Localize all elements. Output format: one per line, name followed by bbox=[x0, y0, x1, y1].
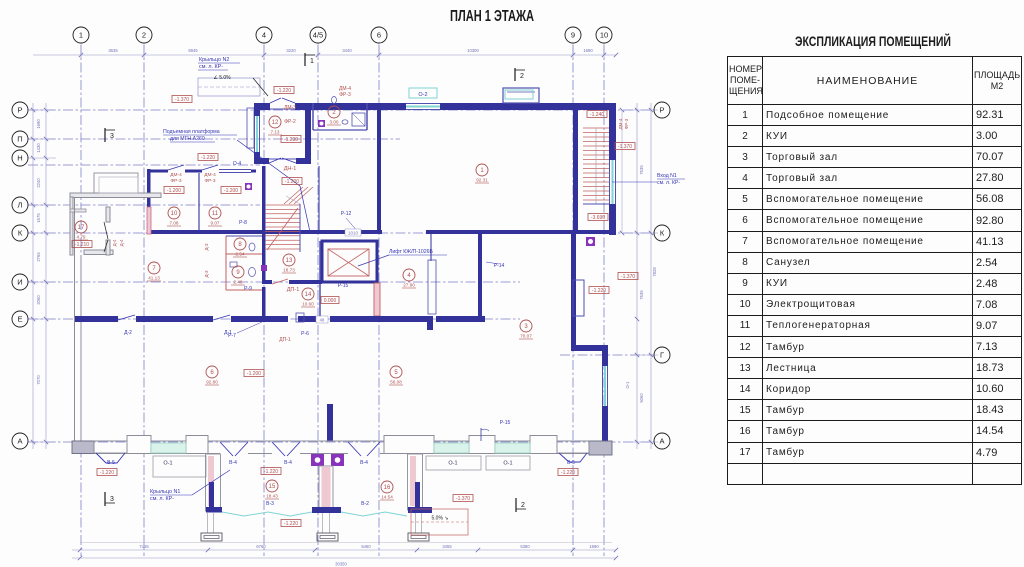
room 6 label bbox=[206, 366, 218, 378]
svg-text:К: К bbox=[18, 229, 23, 238]
svg-text:1675: 1675 bbox=[36, 213, 41, 223]
tambour 12 west wall bbox=[254, 103, 260, 116]
bottom total dimension 30350 bbox=[72, 557, 616, 559]
stub below E wall bbox=[427, 316, 433, 330]
svg-text:В-2: В-2 bbox=[361, 501, 369, 507]
chimney block on north wall bbox=[503, 88, 539, 103]
svg-text:Д-3: Д-3 bbox=[204, 270, 209, 278]
svg-text:-1.220: -1.220 bbox=[592, 288, 606, 294]
porch tambour wall 1 bbox=[206, 454, 221, 511]
tambour 12 west window bbox=[254, 116, 256, 152]
niche on axis9 wall bbox=[573, 280, 584, 316]
niche outline above west wing bbox=[94, 173, 138, 193]
horizontal axis line N bbox=[28, 164, 260, 166]
elevation label -3.690 bbox=[588, 214, 608, 221]
axis bubble И bbox=[12, 274, 28, 290]
svg-text:Д-3: Д-3 bbox=[204, 243, 209, 251]
svg-text:3440: 3440 bbox=[342, 48, 352, 53]
svg-text:2: 2 bbox=[332, 110, 336, 116]
purple marker 1 bbox=[245, 183, 252, 190]
svg-text:2: 2 bbox=[520, 73, 524, 80]
svg-text:56.08: 56.08 bbox=[390, 380, 402, 385]
lift car cross bbox=[328, 249, 369, 276]
bay window B-5 right bbox=[557, 441, 589, 453]
axis bubble П bbox=[12, 131, 28, 147]
door DP-1 leaf bbox=[272, 279, 288, 284]
elevation label -1.220 bbox=[198, 154, 218, 161]
elevation label -1.220 bbox=[261, 468, 281, 475]
vent shaft wall hatched bbox=[374, 283, 380, 316]
svg-text:4/5: 4/5 bbox=[313, 31, 323, 40]
door D-2 leaf bbox=[118, 315, 135, 320]
wall on K axis bbox=[147, 230, 382, 234]
svg-text:12: 12 bbox=[272, 120, 279, 126]
wall on A axis: top face line bbox=[72, 440, 612, 442]
svg-text:ДМ-4: ДМ-4 bbox=[170, 172, 182, 178]
svg-text:О-1: О-1 bbox=[503, 461, 512, 467]
svg-text:-1.200: -1.200 bbox=[224, 188, 238, 194]
svg-text:-1.220: -1.220 bbox=[561, 470, 575, 476]
svg-text:Д-4: Д-4 bbox=[119, 239, 124, 246]
svg-text:18.73: 18.73 bbox=[283, 268, 295, 273]
svg-text:-3.690: -3.690 bbox=[591, 215, 605, 221]
svg-text:1690: 1690 bbox=[583, 48, 593, 53]
svg-text:-1.200: -1.200 bbox=[247, 371, 261, 377]
svg-text:-1.240: -1.240 bbox=[590, 112, 604, 118]
room 17 bottom wall bbox=[84, 250, 113, 255]
door DM-3 opening north bbox=[270, 108, 295, 110]
window O-4 in top wall bbox=[219, 169, 251, 171]
room explication table bbox=[727, 56, 1022, 485]
svg-text:2.48: 2.48 bbox=[234, 280, 243, 285]
svg-text:14: 14 bbox=[305, 292, 312, 298]
svg-text:9: 9 bbox=[236, 270, 240, 276]
svg-text:30350: 30350 bbox=[335, 562, 347, 567]
svg-text:-1.220: -1.220 bbox=[264, 469, 278, 475]
vertical axis line 1 bbox=[80, 45, 82, 556]
svg-text:см. л. КР-: см. л. КР- bbox=[657, 180, 680, 186]
svg-text:1690: 1690 bbox=[36, 119, 41, 129]
porch slab edge line bbox=[80, 542, 612, 544]
svg-text:А: А bbox=[17, 437, 22, 446]
elevation label -1.200 bbox=[244, 370, 264, 377]
door D-1 leaf bbox=[213, 315, 230, 320]
svg-text:7485: 7485 bbox=[139, 544, 149, 549]
svg-text:-1.370: -1.370 bbox=[621, 274, 635, 280]
pink hatched wall near room 7 bbox=[147, 207, 151, 234]
room 11 label bbox=[209, 207, 221, 219]
svg-text:1: 1 bbox=[480, 168, 484, 174]
svg-text:Р-6: Р-6 bbox=[301, 331, 309, 337]
section flag 2 bottom bbox=[515, 498, 517, 512]
axis bubble Л bbox=[12, 197, 28, 213]
room 17 left wall bbox=[70, 197, 73, 255]
svg-text:-1.200: -1.200 bbox=[285, 179, 299, 185]
svg-text:Вход N1: Вход N1 bbox=[657, 173, 677, 179]
svg-text:92.80: 92.80 bbox=[206, 380, 218, 385]
vertical axis line 4 bbox=[263, 45, 265, 556]
stair stringer bbox=[299, 204, 301, 252]
svg-text:-1.370: -1.370 bbox=[175, 97, 189, 103]
svg-text:В-4: В-4 bbox=[229, 460, 237, 466]
svg-text:5460: 5460 bbox=[361, 544, 371, 549]
wall: north facade band bbox=[254, 103, 270, 110]
svg-text:11: 11 bbox=[212, 211, 219, 217]
svg-text:ДМ-4: ДМ-4 bbox=[618, 118, 623, 129]
svg-text:В-4: В-4 bbox=[360, 460, 368, 466]
wall stub below K near room 3 bbox=[430, 234, 432, 261]
horizontal axis line A bbox=[28, 441, 653, 443]
svg-text:7828: 7828 bbox=[652, 267, 657, 277]
svg-text:4: 4 bbox=[262, 31, 266, 40]
room 1 west wall bbox=[377, 107, 381, 230]
axis bubble Н bbox=[12, 150, 28, 166]
axis bubble Р bbox=[654, 102, 670, 118]
left dimension chains bbox=[32, 103, 34, 449]
vertical axis line 9 bbox=[572, 45, 574, 556]
svg-text:14.54: 14.54 bbox=[381, 495, 393, 500]
room 4 label bbox=[403, 269, 415, 281]
svg-text:П: П bbox=[17, 135, 22, 144]
room 10 label bbox=[168, 207, 180, 219]
svg-text:О-1: О-1 bbox=[163, 461, 172, 467]
horizontal axis line L bbox=[28, 204, 260, 206]
svg-text:ПЛАН 1 ЭТАЖА: ПЛАН 1 ЭТАЖА bbox=[450, 8, 534, 25]
elevation label -1.370 bbox=[615, 143, 635, 150]
upper stair flight hatch bbox=[284, 187, 303, 204]
leader line platform bbox=[237, 140, 300, 186]
svg-text:Н: Н bbox=[17, 154, 22, 163]
svg-text:ФР-2: ФР-2 bbox=[284, 119, 296, 125]
svg-text:8: 8 bbox=[238, 242, 242, 248]
section flag 2 top bbox=[514, 68, 516, 81]
svg-text:-1.220: -1.220 bbox=[201, 155, 215, 161]
svg-text:3635: 3635 bbox=[108, 48, 118, 53]
svg-text:ДМ-3: ДМ-3 bbox=[284, 105, 296, 111]
room 9 label bbox=[232, 266, 244, 278]
svg-text:92.31: 92.31 bbox=[476, 178, 488, 183]
room 16 label bbox=[381, 481, 393, 493]
svg-text:3: 3 bbox=[110, 133, 114, 140]
svg-text:В-3: В-3 bbox=[266, 501, 274, 507]
section flag 3 top bbox=[104, 128, 106, 142]
axis bubble 6 bbox=[371, 27, 387, 43]
bottom dimension chain bbox=[72, 549, 616, 551]
svg-text:Е: Е bbox=[17, 315, 22, 324]
WC fixture room 8 bbox=[249, 243, 255, 251]
axis bubble А bbox=[12, 433, 28, 449]
svg-text:1010: 1010 bbox=[348, 231, 359, 236]
elevation label -1.220 bbox=[274, 87, 294, 94]
corridor east wall bbox=[319, 241, 321, 316]
axis bubble 9 bbox=[565, 27, 581, 43]
room 17 east wall with door bbox=[106, 207, 110, 222]
room 17 step wall bbox=[70, 209, 86, 212]
room 1 label bbox=[476, 164, 488, 176]
svg-text:Р-9: Р-9 bbox=[244, 286, 252, 292]
svg-text:3: 3 bbox=[524, 324, 528, 330]
svg-text:5.0% ↘: 5.0% ↘ bbox=[432, 516, 449, 522]
svg-text:-1.220: -1.220 bbox=[277, 88, 291, 94]
svg-text:2765: 2765 bbox=[36, 252, 41, 262]
svg-text:27.80: 27.80 bbox=[403, 283, 415, 288]
svg-text:-1.370: -1.370 bbox=[618, 144, 632, 150]
svg-text:Р-8: Р-8 bbox=[239, 220, 247, 226]
lifting platform rails bbox=[247, 108, 254, 148]
inner right dimension line bbox=[621, 110, 623, 233]
shower room 2 fixture bbox=[352, 113, 365, 126]
svg-text:1: 1 bbox=[79, 31, 83, 40]
wall on E axis bbox=[75, 316, 118, 322]
ramp dashed box 5.0% bbox=[411, 509, 468, 535]
section flag 1 top bbox=[304, 53, 306, 66]
svg-text:В-4: В-4 bbox=[284, 460, 292, 466]
room 17 label bbox=[75, 221, 87, 233]
svg-text:для МГН А260: для МГН А260 bbox=[170, 136, 205, 142]
svg-text:48: 48 bbox=[320, 318, 325, 323]
room4 east wall bbox=[478, 230, 482, 322]
leader lift bbox=[358, 255, 389, 266]
svg-text:Р-15: Р-15 bbox=[338, 283, 349, 289]
svg-text:Л: Л bbox=[18, 201, 23, 210]
axis bubble Г bbox=[654, 347, 670, 363]
room 8 label bbox=[234, 238, 246, 250]
svg-text:10: 10 bbox=[600, 31, 608, 40]
svg-text:5380: 5380 bbox=[520, 544, 530, 549]
svg-text:1690: 1690 bbox=[589, 544, 599, 549]
elevation label -1.220 bbox=[589, 287, 609, 294]
small dim label on E wall bbox=[316, 316, 328, 323]
sink room 9 bbox=[230, 262, 237, 267]
svg-text:3: 3 bbox=[110, 496, 114, 503]
svg-text:О-1: О-1 bbox=[625, 381, 630, 389]
svg-text:13: 13 bbox=[286, 258, 293, 264]
room 2 label bbox=[328, 106, 340, 118]
axis bubble Е bbox=[12, 311, 28, 327]
svg-text:7635: 7635 bbox=[639, 165, 644, 175]
elevation label -1.200 bbox=[221, 187, 241, 194]
svg-text:Крыльцо N1: Крыльцо N1 bbox=[150, 489, 180, 495]
room 12 label bbox=[269, 116, 281, 128]
stairwell east wall bbox=[609, 103, 616, 160]
room 14 label bbox=[302, 288, 314, 300]
elevation label -1.370 bbox=[453, 495, 473, 502]
svg-text:9: 9 bbox=[571, 31, 575, 40]
svg-text:ДП-1: ДП-1 bbox=[287, 287, 300, 293]
svg-text:Р: Р bbox=[17, 106, 22, 115]
svg-text:6760: 6760 bbox=[256, 544, 266, 549]
elevation label -1.210 bbox=[72, 241, 92, 248]
svg-text:0.000: 0.000 bbox=[324, 298, 337, 304]
svg-text:6845: 6845 bbox=[188, 48, 198, 53]
porch center columns purple bbox=[311, 454, 324, 466]
room 3 label bbox=[520, 320, 532, 332]
svg-text:2.54: 2.54 bbox=[236, 252, 245, 257]
svg-text:3220: 3220 bbox=[286, 48, 296, 53]
right wing west wall below K bbox=[571, 234, 576, 351]
svg-text:Д-4: Д-4 bbox=[112, 239, 117, 246]
elevation label -1.220 bbox=[97, 469, 117, 476]
room 13 label bbox=[283, 254, 295, 266]
svg-text:ДН-1: ДН-1 bbox=[284, 166, 297, 172]
svg-text:О-1: О-1 bbox=[448, 461, 457, 467]
elevation label -1.200 bbox=[282, 178, 302, 185]
porch steps cyan zigzag bbox=[222, 512, 312, 516]
svg-text:Р: Р bbox=[659, 106, 664, 115]
svg-text:4.79: 4.79 bbox=[77, 235, 86, 240]
svg-text:ФР-3: ФР-3 bbox=[204, 178, 215, 184]
svg-text:41.13: 41.13 bbox=[148, 276, 160, 281]
svg-text:7635: 7635 bbox=[639, 290, 644, 300]
svg-text:10.60: 10.60 bbox=[302, 302, 314, 307]
elevation label -1.230 bbox=[281, 136, 301, 143]
svg-text:В-5: В-5 bbox=[107, 460, 115, 466]
axis bubble К bbox=[12, 225, 28, 241]
horizontal axis line G bbox=[560, 354, 653, 356]
rooms 10/11 top wall bbox=[147, 170, 168, 173]
svg-text:Р-7: Р-7 bbox=[228, 333, 236, 339]
axis bubble 2 bbox=[136, 27, 152, 43]
horizontal axis line E bbox=[28, 318, 520, 320]
svg-text:10: 10 bbox=[171, 211, 178, 217]
svg-text:ЭКСПЛИКАЦИЯ ПОМЕЩЕНИЙ: ЭКСПЛИКАЦИЯ ПОМЕЩЕНИЙ bbox=[795, 34, 951, 49]
axis bubble Р bbox=[12, 102, 28, 118]
svg-text:О-2: О-2 bbox=[418, 92, 427, 98]
svg-text:7070: 7070 bbox=[36, 375, 41, 385]
svg-text:Р-12: Р-12 bbox=[341, 211, 352, 217]
svg-text:9.07: 9.07 bbox=[211, 221, 220, 226]
room 7 label bbox=[148, 262, 160, 274]
teal window label O-2 bbox=[409, 88, 437, 98]
room 15 label bbox=[266, 480, 278, 492]
svg-text:см. л. КР-: см. л. КР- bbox=[150, 496, 174, 502]
svg-text:-1.200: -1.200 bbox=[167, 188, 181, 194]
elevation label -1.220 bbox=[558, 469, 578, 476]
svg-text:-1.370: -1.370 bbox=[456, 496, 470, 502]
stairwell west wall (axis 9) bbox=[573, 110, 578, 230]
west wing north gray wall bbox=[70, 193, 161, 198]
door B-4 leafs on A wall bbox=[220, 442, 233, 456]
right dimension chains bbox=[636, 103, 638, 449]
svg-text:К: К bbox=[660, 229, 665, 238]
elevation label -1.370 bbox=[618, 273, 638, 280]
formwork lines porch to pads bbox=[207, 513, 209, 533]
svg-text:16: 16 bbox=[384, 485, 391, 491]
svg-text:10300: 10300 bbox=[467, 48, 479, 53]
lift shaft walls bbox=[322, 241, 377, 282]
vent boxes on E wall bbox=[296, 313, 304, 322]
small dim label 1010 on K wall bbox=[345, 229, 361, 236]
stairwell landing line bbox=[583, 203, 609, 205]
door room 17 leaf bbox=[104, 222, 108, 239]
elevation label -1.220 bbox=[281, 520, 301, 527]
svg-text:Крыльцо N2: Крыльцо N2 bbox=[199, 57, 229, 63]
vertical axis line 6 bbox=[378, 45, 380, 556]
room 2 block walls bbox=[312, 103, 314, 130]
stair arrow bbox=[267, 208, 298, 250]
horizontal axis line P bbox=[28, 109, 653, 111]
svg-text:Р-15: Р-15 bbox=[500, 420, 511, 426]
axis bubble А bbox=[654, 433, 670, 449]
svg-text:см. л. КР-: см. л. КР- bbox=[199, 64, 223, 70]
svg-text:И: И bbox=[17, 278, 22, 287]
svg-text:-1.220: -1.220 bbox=[284, 521, 298, 527]
elevation label -1.240 bbox=[587, 111, 607, 118]
svg-text:6: 6 bbox=[210, 370, 214, 376]
right wing east wall bbox=[602, 351, 608, 366]
porch N2 dashed outline top-left bbox=[198, 78, 260, 96]
svg-text:-1.230: -1.230 bbox=[284, 137, 298, 143]
purple marker 2 bbox=[318, 120, 325, 127]
A wall pilaster boxes bbox=[127, 436, 151, 454]
svg-text:Г: Г bbox=[660, 351, 664, 360]
svg-text:18.43: 18.43 bbox=[266, 494, 278, 499]
svg-text:5060: 5060 bbox=[639, 393, 644, 403]
window O-2 in north facade bbox=[406, 103, 440, 105]
svg-text:1430: 1430 bbox=[36, 143, 41, 153]
svg-text:ДМ-4: ДМ-4 bbox=[204, 172, 216, 178]
svg-text:∠ 5.0%: ∠ 5.0% bbox=[213, 75, 231, 81]
svg-text:ФР-3: ФР-3 bbox=[624, 118, 629, 129]
svg-text:3.00: 3.00 bbox=[330, 120, 339, 125]
tambour 12 east wall bbox=[305, 103, 311, 164]
vertical axis line 4/5 bbox=[317, 45, 319, 556]
svg-text:1: 1 bbox=[310, 58, 314, 65]
vertical axis line 10 bbox=[603, 45, 605, 556]
corridor wall with door DP-1 bbox=[262, 280, 272, 284]
axis bubble 4 bbox=[256, 27, 272, 43]
svg-text:ФР-3: ФР-3 bbox=[170, 178, 181, 184]
axis bubble 4/5 bbox=[310, 27, 326, 43]
svg-text:15: 15 bbox=[269, 484, 276, 490]
porch center wall hatched bbox=[319, 466, 333, 508]
leader Krylco N1 bbox=[192, 470, 230, 495]
svg-text:-1.210: -1.210 bbox=[75, 242, 89, 248]
top dimension chain bbox=[33, 54, 616, 56]
axis bubble К bbox=[654, 225, 670, 241]
stair hall west wall bbox=[262, 166, 266, 280]
room 5 label bbox=[390, 366, 402, 378]
purple marker 3 bbox=[586, 237, 595, 246]
rooms 10/11 divider bbox=[198, 173, 200, 230]
svg-text:5: 5 bbox=[394, 370, 398, 376]
svg-text:70.07: 70.07 bbox=[520, 334, 532, 339]
svg-text:ДП-1: ДП-1 bbox=[279, 337, 291, 343]
teal box right bbox=[505, 90, 533, 99]
section flag 3 bottom bbox=[104, 492, 106, 506]
svg-text:7.13: 7.13 bbox=[271, 130, 280, 135]
elevation label -1.370 bbox=[172, 96, 192, 103]
svg-text:А: А bbox=[659, 437, 664, 446]
svg-text:-1.220: -1.220 bbox=[100, 470, 114, 476]
svg-text:6: 6 bbox=[377, 31, 381, 40]
svg-text:4: 4 bbox=[407, 273, 411, 279]
A wall windows O-1 teal fills bbox=[151, 443, 186, 453]
svg-text:3455: 3455 bbox=[442, 544, 452, 549]
svg-text:2060: 2060 bbox=[36, 295, 41, 305]
svg-text:ФР-3: ФР-3 bbox=[339, 92, 351, 98]
stair treads entrance stairwell bbox=[583, 127, 609, 129]
vertical axis line 2 bbox=[143, 45, 145, 556]
wall on A axis: bottom face line bbox=[72, 453, 220, 455]
porch tambour wall 3 bbox=[408, 454, 423, 510]
rooms 10/11 west wall bbox=[147, 169, 151, 234]
foundation pads bbox=[201, 533, 222, 541]
O-1 callout boxes below windows bbox=[153, 456, 206, 477]
svg-text:В-5: В-5 bbox=[567, 460, 575, 466]
svg-text:17: 17 bbox=[78, 225, 85, 231]
horizontal axis line Pi bbox=[28, 138, 400, 140]
